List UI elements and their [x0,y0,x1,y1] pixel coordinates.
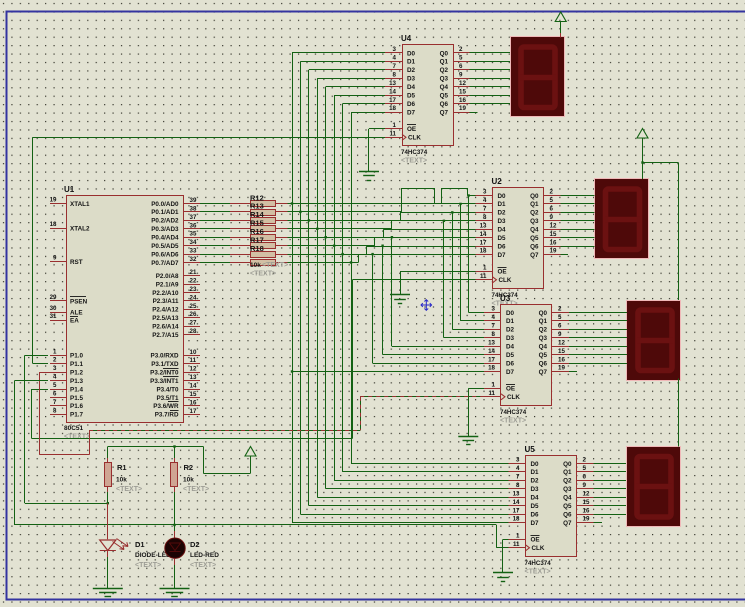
svg-text:P0.0/AD0: P0.0/AD0 [151,201,179,208]
svg-text:OE: OE [506,386,515,393]
svg-text:D1: D1 [407,59,416,66]
svg-text:8: 8 [393,72,397,79]
svg-text:12: 12 [583,490,590,497]
svg-text:P0.3/AD3: P0.3/AD3 [151,226,179,233]
svg-text:29: 29 [50,294,57,301]
svg-text:P0.5/AD5: P0.5/AD5 [151,243,179,250]
svg-text:P2.7/A15: P2.7/A15 [152,332,179,339]
svg-text:Q4: Q4 [563,495,572,502]
svg-text:<TEXT>: <TEXT> [500,418,526,425]
svg-text:P1.3: P1.3 [70,378,83,385]
svg-text:12: 12 [550,222,557,229]
svg-text:P3.4/T0: P3.4/T0 [156,386,179,393]
svg-text:14: 14 [513,499,520,506]
svg-text:4: 4 [53,374,57,381]
svg-text:P2.2/A10: P2.2/A10 [152,290,179,297]
svg-text:P0.2/AD2: P0.2/AD2 [151,218,179,225]
svg-text:3: 3 [516,457,520,464]
svg-text:13: 13 [488,339,495,346]
svg-text:Q1: Q1 [530,201,539,208]
svg-text:8: 8 [53,407,57,414]
svg-text:<TEXT>: <TEXT> [250,271,276,278]
svg-text:16: 16 [459,97,466,104]
svg-text:P0.7/AD7: P0.7/AD7 [151,260,179,267]
svg-text:<TEXT>: <TEXT> [190,562,216,569]
svg-text:6: 6 [550,206,554,213]
svg-text:U4: U4 [401,34,412,43]
svg-text:18: 18 [389,105,396,112]
svg-text:10k: 10k [116,477,127,484]
svg-text:Q2: Q2 [440,67,449,74]
svg-text:R1: R1 [117,463,127,472]
svg-text:35: 35 [190,231,197,238]
svg-text:3: 3 [53,365,57,372]
svg-text:Q2: Q2 [563,478,572,485]
svg-text:5: 5 [583,465,587,472]
svg-text:Q1: Q1 [563,469,572,476]
svg-text:D6: D6 [498,243,507,250]
svg-text:U5: U5 [525,445,536,454]
svg-text:OE: OE [407,126,416,133]
svg-text:12: 12 [459,80,466,87]
svg-text:1: 1 [53,348,57,355]
svg-text:Q4: Q4 [440,84,449,91]
svg-text:D1: D1 [506,318,515,325]
svg-text:D7: D7 [531,520,540,527]
svg-text:2: 2 [583,457,587,464]
svg-text:14: 14 [190,383,197,390]
svg-text:11: 11 [513,541,520,548]
svg-text:D2: D2 [506,327,515,334]
svg-text:9: 9 [550,214,554,221]
svg-text:11: 11 [480,273,487,280]
svg-text:CLK: CLK [507,394,520,401]
svg-text:15: 15 [550,231,557,238]
svg-text:D4: D4 [506,344,515,351]
svg-text:16: 16 [583,507,590,514]
svg-text:D4: D4 [407,84,416,91]
svg-text:Q5: Q5 [440,93,449,100]
svg-text:D4: D4 [498,227,507,234]
svg-text:Q0: Q0 [539,310,548,317]
svg-text:14: 14 [480,231,487,238]
svg-text:6: 6 [459,63,463,70]
svg-text:15: 15 [190,391,197,398]
svg-text:2: 2 [558,306,562,313]
svg-text:18: 18 [50,221,57,228]
svg-text:7: 7 [393,63,397,70]
svg-text:9: 9 [459,72,463,79]
svg-text:D5: D5 [531,503,540,510]
svg-text:15: 15 [558,348,565,355]
svg-text:17: 17 [513,507,520,514]
svg-text:37: 37 [190,214,197,221]
svg-text:74HC374: 74HC374 [525,560,552,567]
svg-text:P3.1/TXD: P3.1/TXD [151,361,179,368]
svg-text:9: 9 [53,255,57,262]
svg-text:P1.0: P1.0 [70,353,83,360]
svg-text:11: 11 [190,357,197,364]
svg-text:D7: D7 [498,252,507,259]
svg-text:3: 3 [492,306,496,313]
svg-text:16: 16 [550,239,557,246]
svg-text:36: 36 [190,222,197,229]
svg-text:OE: OE [531,537,540,544]
svg-text:OE: OE [498,269,507,276]
svg-text:24: 24 [190,294,197,301]
svg-text:D3: D3 [506,335,515,342]
svg-text:P3.5/T1: P3.5/T1 [156,395,179,402]
svg-text:D2: D2 [190,540,200,549]
svg-text:17: 17 [480,239,487,246]
svg-text:9: 9 [558,331,562,338]
svg-text:15: 15 [459,88,466,95]
svg-text:Q5: Q5 [563,503,572,510]
svg-text:D4: D4 [531,495,540,502]
svg-text:D5: D5 [506,352,515,359]
svg-text:Q6: Q6 [539,360,548,367]
svg-text:74HC374: 74HC374 [500,409,527,416]
svg-text:D0: D0 [498,193,507,200]
svg-text:8: 8 [516,482,520,489]
svg-text:3: 3 [483,189,487,196]
svg-text:P2.6/A14: P2.6/A14 [152,324,179,331]
svg-text:1: 1 [492,382,496,389]
svg-text:Q3: Q3 [563,486,572,493]
svg-text:<TEXT>: <TEXT> [116,486,142,493]
svg-text:P2.4/A12: P2.4/A12 [152,307,179,314]
svg-text:P2.3/A11: P2.3/A11 [153,298,179,305]
svg-text:R18: R18 [250,244,264,253]
svg-text:2: 2 [459,46,463,53]
svg-text:Q4: Q4 [530,227,539,234]
svg-text:P1.5: P1.5 [70,395,83,402]
svg-text:11: 11 [488,390,495,397]
svg-text:P0.4/AD4: P0.4/AD4 [151,235,179,242]
svg-text:P3.2/INT0: P3.2/INT0 [150,370,179,377]
svg-text:<TEXT>: <TEXT> [64,434,90,441]
svg-text:1: 1 [483,265,487,272]
svg-text:2: 2 [550,189,554,196]
svg-text:Q1: Q1 [440,59,449,66]
svg-text:38: 38 [190,205,197,212]
svg-text:D2: D2 [498,210,507,217]
svg-text:Q5: Q5 [539,352,548,359]
svg-text:1: 1 [516,533,520,540]
svg-text:P1.2: P1.2 [70,370,83,377]
svg-text:ALE: ALE [70,309,83,316]
svg-text:10: 10 [190,349,197,356]
svg-text:3: 3 [393,46,397,53]
svg-text:6: 6 [53,390,57,397]
svg-text:<TEXT>: <TEXT> [183,486,209,493]
svg-text:17: 17 [389,97,396,104]
svg-text:XTAL2: XTAL2 [70,225,90,232]
svg-text:7: 7 [53,399,57,406]
svg-text:19: 19 [459,105,466,112]
svg-text:5: 5 [53,382,57,389]
svg-text:18: 18 [513,516,520,523]
svg-text:15: 15 [583,499,590,506]
svg-text:Q5: Q5 [530,235,539,242]
svg-text:8: 8 [492,331,496,338]
svg-text:16: 16 [190,399,197,406]
svg-text:Q2: Q2 [530,210,539,217]
svg-text:D5: D5 [498,235,507,242]
svg-text:P3.6/WR: P3.6/WR [153,403,179,410]
svg-text:13: 13 [389,80,396,87]
svg-text:P0.6/AD6: P0.6/AD6 [151,251,179,258]
svg-text:19: 19 [583,516,590,523]
svg-text:LED-RED: LED-RED [190,552,219,559]
svg-text:Q7: Q7 [539,369,548,376]
svg-text:4: 4 [393,55,397,62]
svg-text:EA: EA [70,317,79,324]
svg-text:32: 32 [190,256,197,263]
svg-text:<TEXT>: <TEXT> [135,562,161,569]
svg-text:25: 25 [190,303,197,310]
svg-text:CLK: CLK [408,135,421,142]
svg-text:6: 6 [558,323,562,330]
svg-text:5: 5 [550,197,554,204]
svg-text:Q3: Q3 [539,335,548,342]
svg-text:5: 5 [558,314,562,321]
svg-text:30: 30 [50,305,57,312]
svg-text:D2: D2 [531,478,540,485]
svg-text:18: 18 [480,248,487,255]
svg-text:R2: R2 [184,463,194,472]
svg-text:7: 7 [516,474,520,481]
svg-text:7: 7 [492,323,496,330]
svg-text:Q2: Q2 [539,327,548,334]
svg-text:74HC374: 74HC374 [401,149,428,156]
svg-text:33: 33 [190,248,197,255]
svg-text:19: 19 [550,248,557,255]
svg-text:10k: 10k [183,477,194,484]
svg-text:D3: D3 [531,486,540,493]
svg-text:D1: D1 [498,201,507,208]
svg-text:4: 4 [483,197,487,204]
svg-text:22: 22 [190,278,197,285]
svg-text:RST: RST [70,259,83,266]
svg-text:Q6: Q6 [563,511,572,518]
svg-text:17: 17 [190,408,197,415]
svg-text:80C51: 80C51 [64,425,84,432]
svg-text:P1.4: P1.4 [70,386,83,393]
svg-text:13: 13 [513,490,520,497]
svg-text:D5: D5 [407,93,416,100]
svg-text:D6: D6 [506,360,515,367]
svg-text:D6: D6 [407,101,416,108]
svg-text:D6: D6 [531,511,540,518]
svg-text:34: 34 [190,239,197,246]
svg-text:<TEXT>: <TEXT> [525,569,551,576]
svg-text:P2.0/A8: P2.0/A8 [156,273,179,280]
svg-text:P3.7/RD: P3.7/RD [155,412,179,419]
svg-text:P0.1/AD1: P0.1/AD1 [151,209,179,216]
svg-text:39: 39 [190,197,197,204]
svg-text:12: 12 [558,339,565,346]
svg-text:PSEN: PSEN [70,298,88,305]
svg-text:P3.0/RXD: P3.0/RXD [151,353,179,360]
svg-text:D3: D3 [407,76,416,83]
svg-text:Q7: Q7 [530,252,539,259]
svg-text:18: 18 [488,365,495,372]
svg-text:U2: U2 [492,177,503,186]
svg-text:Q3: Q3 [440,76,449,83]
svg-text:14: 14 [488,348,495,355]
svg-text:<TEXT>: <TEXT> [262,262,288,269]
svg-text:7: 7 [483,206,487,213]
svg-text:28: 28 [190,328,197,335]
svg-text:D1: D1 [135,540,145,549]
svg-text:P2.1/A9: P2.1/A9 [156,281,179,288]
svg-text:14: 14 [389,88,396,95]
svg-text:2: 2 [53,357,57,364]
svg-text:D3: D3 [498,218,507,225]
svg-text:D0: D0 [407,50,416,57]
svg-text:21: 21 [190,269,197,276]
svg-text:19: 19 [558,365,565,372]
svg-text:CLK: CLK [532,545,545,552]
svg-text:4: 4 [492,314,496,321]
svg-text:CLK: CLK [499,277,512,284]
svg-text:<TEXT>: <TEXT> [401,158,427,165]
svg-text:P1.1: P1.1 [70,361,83,368]
svg-text:Q7: Q7 [563,520,572,527]
svg-text:Q0: Q0 [563,461,572,468]
svg-text:17: 17 [488,356,495,363]
svg-text:D1: D1 [531,469,540,476]
svg-text:4: 4 [516,465,520,472]
svg-text:Q0: Q0 [440,50,449,57]
svg-text:13: 13 [480,222,487,229]
svg-text:Q4: Q4 [539,344,548,351]
svg-text:D0: D0 [531,461,540,468]
svg-text:26: 26 [190,311,197,318]
svg-text:6: 6 [583,474,587,481]
svg-text:16: 16 [558,356,565,363]
svg-text:10k: 10k [250,262,261,269]
svg-text:13: 13 [190,374,197,381]
svg-text:D2: D2 [407,67,416,74]
svg-text:D0: D0 [506,310,515,317]
svg-text:9: 9 [583,482,587,489]
svg-text:Q0: Q0 [530,193,539,200]
svg-text:Q3: Q3 [530,218,539,225]
svg-text:P3.3/INT1: P3.3/INT1 [150,378,179,385]
svg-text:U3: U3 [500,294,511,303]
svg-text:1: 1 [393,122,397,129]
svg-text:D7: D7 [407,109,416,116]
svg-text:11: 11 [389,131,396,138]
svg-text:19: 19 [50,197,57,204]
svg-text:XTAL1: XTAL1 [70,201,90,208]
svg-text:31: 31 [50,313,57,320]
svg-text:U1: U1 [64,185,75,194]
svg-text:27: 27 [190,320,197,327]
svg-text:Q6: Q6 [530,243,539,250]
svg-text:P1.7: P1.7 [70,412,83,419]
svg-text:5: 5 [459,55,463,62]
svg-text:Q1: Q1 [539,318,548,325]
svg-text:P2.5/A13: P2.5/A13 [152,315,179,322]
svg-text:12: 12 [190,366,197,373]
svg-text:8: 8 [483,214,487,221]
svg-text:23: 23 [190,286,197,293]
svg-text:D7: D7 [506,369,515,376]
svg-text:Q6: Q6 [440,101,449,108]
svg-text:Q7: Q7 [440,109,449,116]
svg-text:P1.6: P1.6 [70,403,83,410]
